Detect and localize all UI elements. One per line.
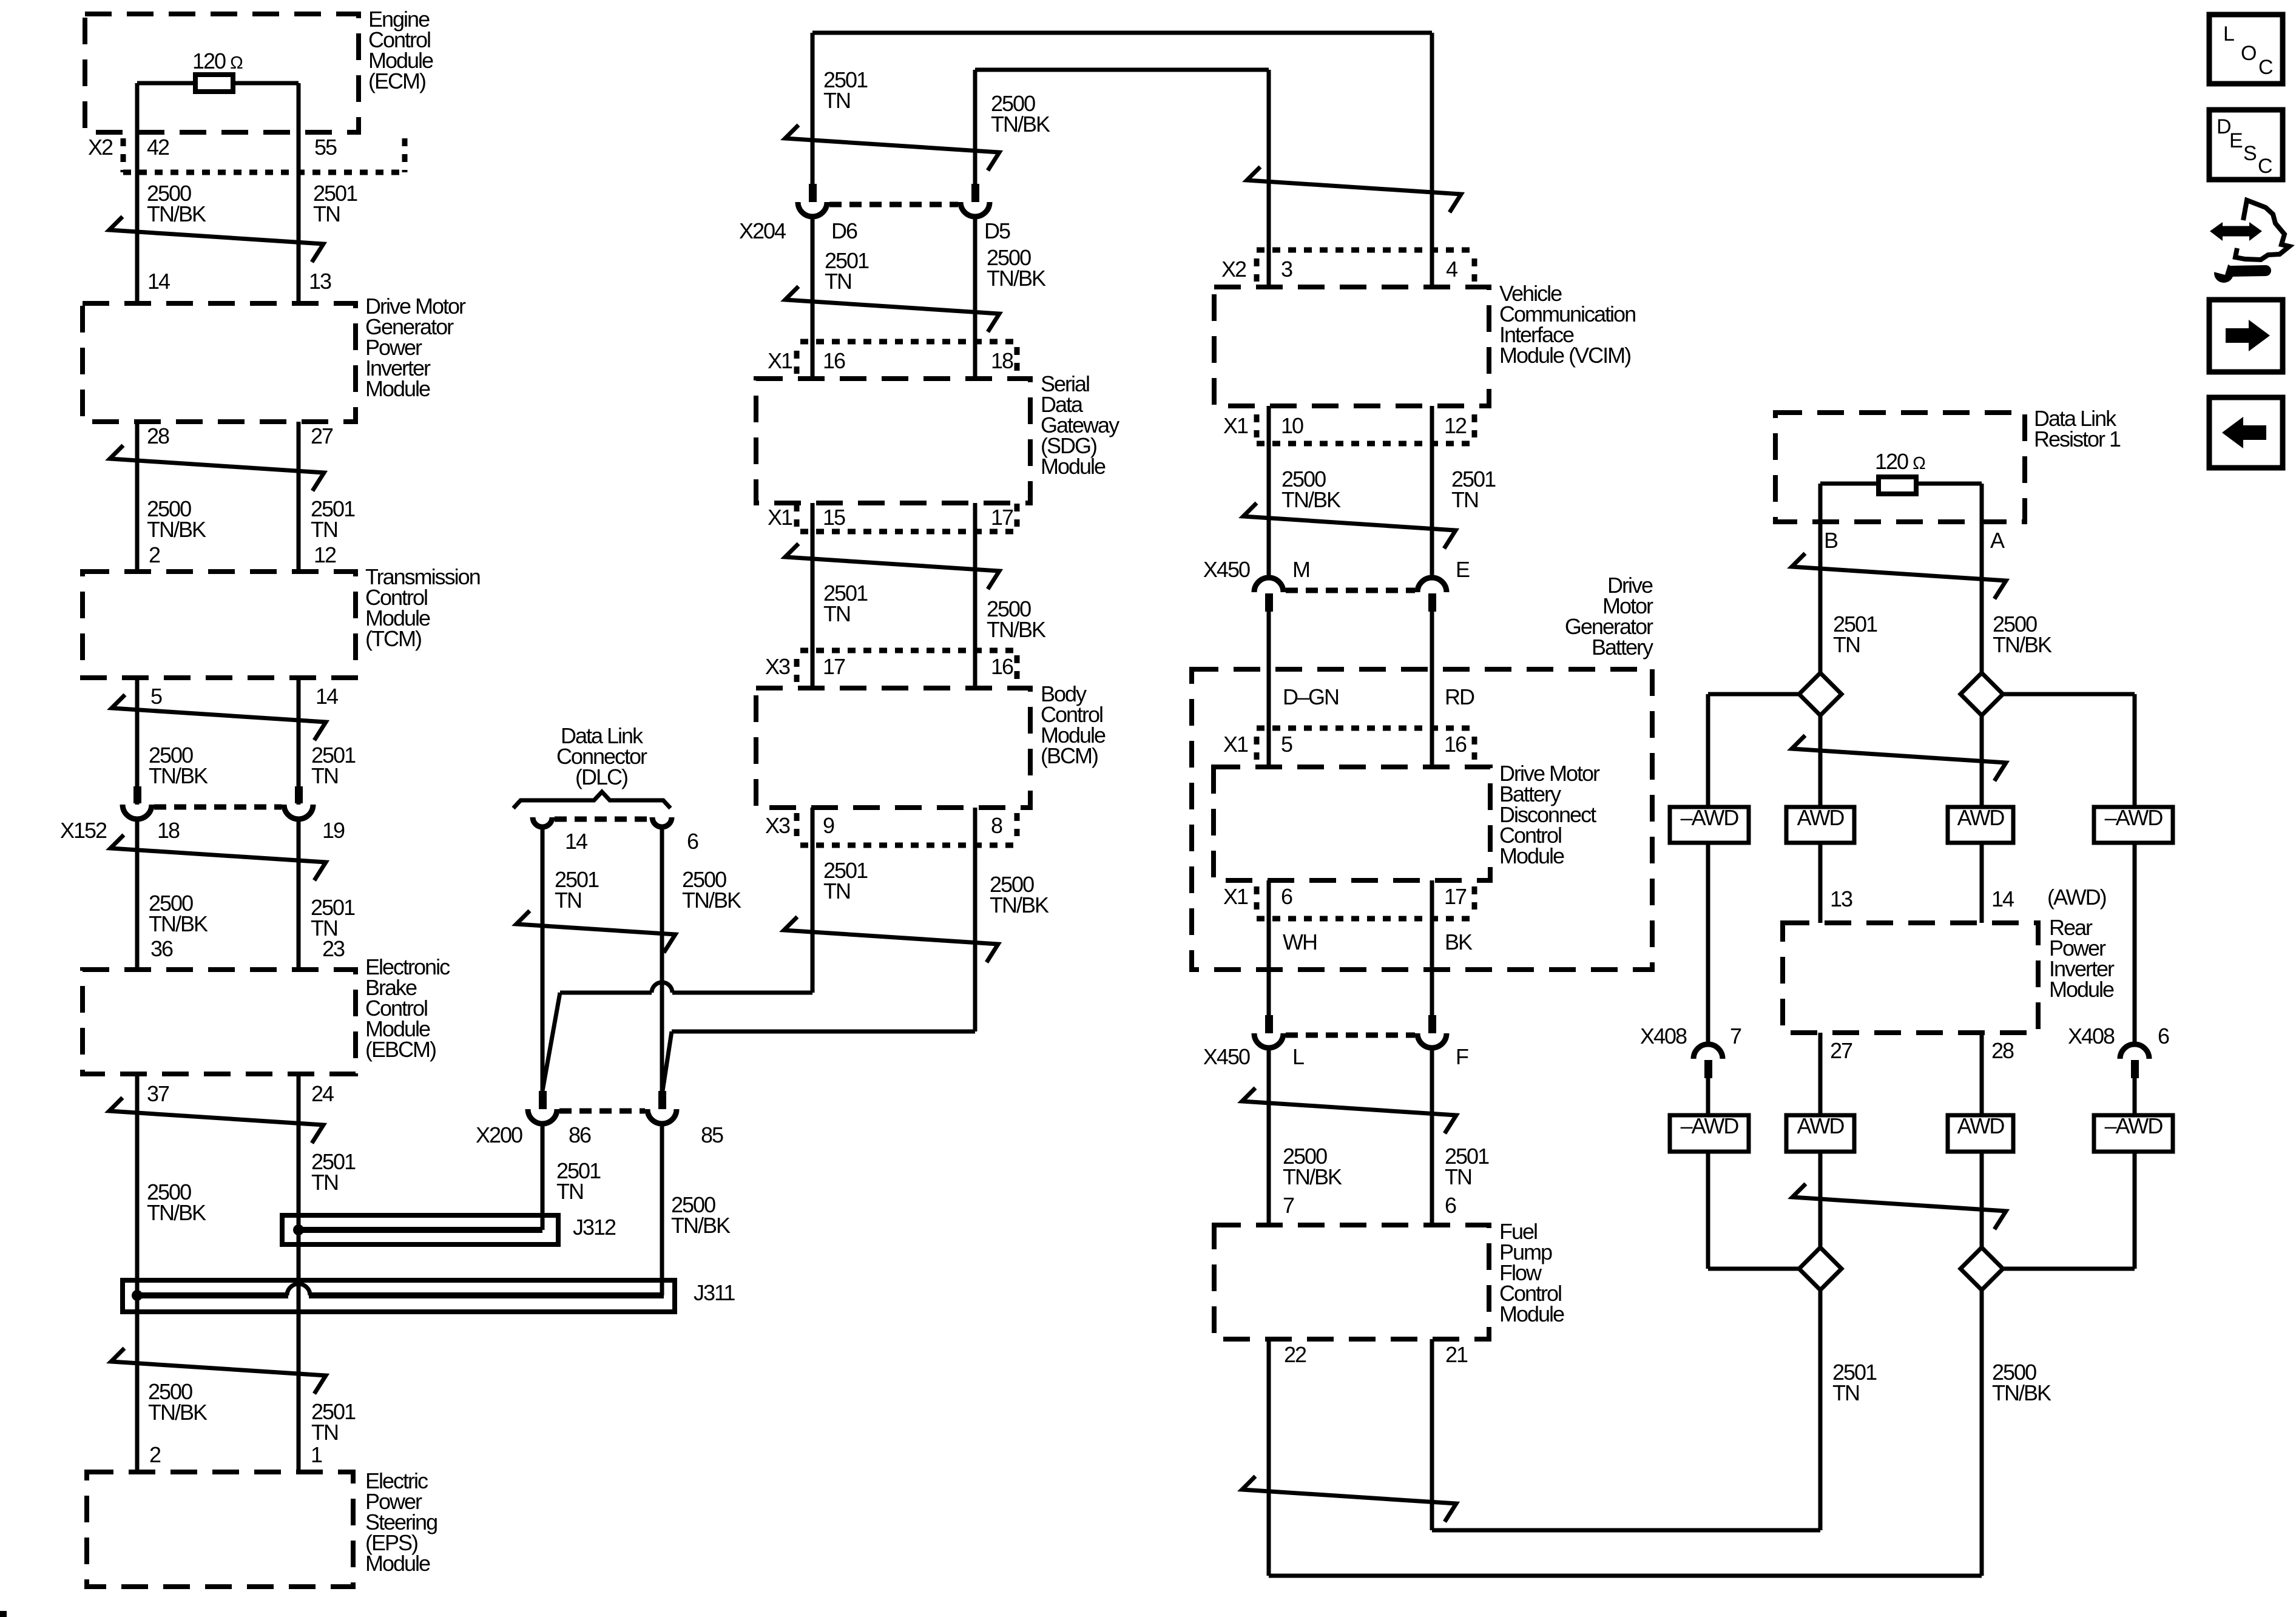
page period mark <box>0 1611 7 1617</box>
wire -AWD right to lower diamond <box>2003 1152 2135 1269</box>
svg-text:X1: X1 <box>1223 732 1248 757</box>
wire 2500 ECM pin 42 to pin 14 <box>135 83 140 302</box>
pin 85 (X200) <box>701 1122 723 1147</box>
svg-text:TN/BK: TN/BK <box>147 201 206 226</box>
option box AWD (row 1 mid-right) <box>1948 805 2013 843</box>
svg-text:TN/BK: TN/BK <box>1283 1164 1342 1189</box>
wire 2500 DLC pin 6 to X200 pin 85 <box>660 827 664 1091</box>
label X450 (M/E) <box>1203 557 1250 582</box>
label 2501 TN (X152-EBCM) <box>311 895 355 940</box>
label 2501 TN (SDG-BCM) <box>823 581 868 626</box>
connector X450 M/E dotted line <box>1286 588 1415 593</box>
pin 14 (TCM) <box>316 684 338 709</box>
svg-text:1: 1 <box>311 1442 322 1467</box>
pin L (X450) <box>1292 1044 1304 1069</box>
connector X152 pin 18 terminal <box>123 786 152 819</box>
label 2500 TN/BK (VCIM-X450) <box>1281 467 1341 512</box>
svg-text:X450: X450 <box>1203 1044 1250 1069</box>
connector X450 pin L terminal <box>1254 1015 1283 1048</box>
label 2501 TN (VCIM-X450) <box>1451 467 1496 512</box>
label 2500 TN/BK (DMGPIM-TCM) <box>147 496 206 542</box>
pin 13 (rear inverter) <box>1830 886 1852 911</box>
pin 86 (X200) <box>569 1122 591 1147</box>
wire X408 7 to -AWD box row 2 <box>1706 1078 1710 1115</box>
module Fuel Pump Flow Control Module <box>1214 1219 1564 1339</box>
crossing slash (rear lower wires) <box>1792 1184 2006 1229</box>
svg-text:6: 6 <box>687 829 698 854</box>
wire 2501 EBCM pin 24 to EPS pin 1 through J312 <box>297 1074 301 1472</box>
label 2500 TN/BK (X152-EBCM) <box>149 891 208 936</box>
connector X408 pin 6 terminal <box>2120 1044 2149 1078</box>
svg-text:18: 18 <box>991 348 1013 373</box>
svg-text:X450: X450 <box>1203 557 1250 582</box>
svg-text:86: 86 <box>569 1122 591 1147</box>
svg-text:(AWD): (AWD) <box>2047 885 2106 910</box>
label 2500 TN/BK (rear bus) <box>1992 1360 2051 1405</box>
wire 2501 DMGPIM pin 27 to TCM pin 12 <box>297 422 301 572</box>
label 2501 TN (J312-EPS) <box>311 1399 356 1445</box>
junction diamond (2501 branch lower) <box>1799 1247 1842 1290</box>
svg-text:–AWD: –AWD <box>1681 805 1739 830</box>
crossing slash (fuel pump lower wires) <box>1242 1476 1456 1522</box>
wire 2501 X450 F to fuel pump pin 6 <box>1430 1048 1434 1225</box>
label 2500 TN/BK (J311-EPS) <box>148 1379 208 1425</box>
svg-text:24: 24 <box>311 1081 334 1106</box>
pin 12 (VCIM X1) <box>1444 413 1467 438</box>
pin 15 (SDG X1) <box>823 505 845 530</box>
wire 2501 lower diamond to bus <box>1818 1290 1823 1530</box>
crossing slash (X204-SDG wires) <box>785 286 999 332</box>
svg-text:(BCM): (BCM) <box>1041 743 1098 768</box>
svg-text:D–GN: D–GN <box>1283 684 1339 709</box>
svg-text:17: 17 <box>823 654 845 679</box>
pin 18 (SDG X1) <box>991 348 1013 373</box>
pin 17 (disconnect X1) <box>1444 884 1467 909</box>
crossing slash (DLC wires) <box>516 911 675 953</box>
label X408 (pin 7) <box>1640 1024 1687 1048</box>
pin 2 (TCM) <box>149 542 160 567</box>
junction diamond (2501 branch upper) <box>1799 673 1842 715</box>
connector X1 row of SDG top <box>768 342 1017 374</box>
svg-text:16: 16 <box>823 348 845 373</box>
crossing slash (DMGPIM wires) <box>110 445 324 491</box>
wire 2500 rear inverter pin 28 down <box>1980 1033 1984 1247</box>
svg-text:X1: X1 <box>1223 413 1248 438</box>
wire 2501 BCM pin 9 to X200 pin 86 <box>542 808 812 1091</box>
svg-text:F: F <box>1456 1044 1468 1069</box>
pin 2 (EPS) <box>149 1442 161 1467</box>
svg-text:TN: TN <box>556 1179 583 1204</box>
crossing slash (BCM lower wires) <box>784 917 998 962</box>
svg-text:X152: X152 <box>60 818 107 843</box>
label X200 <box>476 1122 522 1147</box>
svg-text:B: B <box>1824 528 1838 553</box>
svg-text:36: 36 <box>150 936 173 961</box>
svg-text:18: 18 <box>157 818 180 843</box>
label (AWD) <box>2047 885 2106 910</box>
wire 2501 rear inverter pin 27 down <box>1818 1033 1823 1247</box>
pin 28 (rear inverter) <box>1991 1038 2014 1063</box>
pin 6 (X408) <box>2158 1024 2169 1048</box>
label 2501 TN (ECM-DMGPIM right) <box>313 181 357 226</box>
connector X1 5/16 row (battery disconnect) <box>1223 728 1474 760</box>
svg-text:–AWD: –AWD <box>1681 1113 1739 1138</box>
option box AWD (row 2 mid-right) <box>1948 1113 2013 1152</box>
wire 2500 AWD box to rear inverter pin 14 <box>1980 843 1984 923</box>
pin M (X450) <box>1292 557 1309 582</box>
wire 2500 X152 pin 18 to EBCM pin 36 <box>135 819 140 970</box>
crossing slash (top bus wires) <box>785 125 999 170</box>
wire 2501 VCIM pin 12 to X450 E <box>1430 406 1434 578</box>
svg-text:TN: TN <box>1445 1164 1471 1189</box>
svg-text:X200: X200 <box>476 1122 522 1147</box>
svg-text:D5: D5 <box>984 218 1010 243</box>
label RD <box>1445 684 1474 709</box>
module Electronic Brake Control Module (EBCM) <box>83 954 450 1074</box>
svg-text:TN: TN <box>1451 487 1478 512</box>
connector X204 pin D6 terminal <box>798 184 827 217</box>
svg-text:17: 17 <box>991 505 1013 530</box>
crossing slash (X450-fuel pump wires) <box>1242 1088 1456 1133</box>
crossing slash (VCIM-X450 wires) <box>1243 503 1456 549</box>
module Vehicle Communication Interface Module (VCIM) <box>1214 281 1635 406</box>
junction diamond (2500 branch upper) <box>1960 673 2003 715</box>
svg-text:E: E <box>1456 557 1470 582</box>
option box -AWD (row 1 left) <box>1670 805 1749 843</box>
svg-text:15: 15 <box>823 505 845 530</box>
label BK <box>1445 930 1473 954</box>
label 2500 TN/BK (DLC-X200) <box>682 867 741 913</box>
pin 14 (DMGPIM) <box>147 269 170 294</box>
module Drive Motor Battery Disconnect Control Module <box>1214 761 1600 880</box>
svg-text:7: 7 <box>1730 1024 1741 1048</box>
pin 7 (X408) <box>1730 1024 1741 1048</box>
label 2501 TN (EBCM-J312) <box>311 1149 356 1195</box>
svg-text:14: 14 <box>147 269 170 294</box>
label 2501 TN (X450-fuel pump) <box>1445 1144 1489 1189</box>
crossing slash (J311-EPS wires) <box>111 1348 326 1394</box>
svg-text:2: 2 <box>149 1442 161 1467</box>
connector X3 row of BCM top <box>765 650 1017 682</box>
wire 2500 DMGPIM pin 28 to TCM pin 2 <box>135 422 140 572</box>
label 2501 TN (top bus) <box>823 67 868 113</box>
svg-text:TN: TN <box>825 269 851 294</box>
pin 6 (disconnect X1) <box>1281 884 1292 909</box>
svg-text:6: 6 <box>1445 1193 1456 1218</box>
label 2500 TN/BK (EBCM-J311) <box>147 1180 206 1225</box>
option box -AWD (row 2 right) <box>2094 1113 2173 1152</box>
connector X200 pin 86 terminal <box>528 1091 557 1124</box>
pin 1 (EPS) <box>311 1442 322 1467</box>
svg-text:16: 16 <box>991 654 1013 679</box>
svg-text:9: 9 <box>823 813 834 838</box>
wire 2501 X204 D6 to SDG pin 16 <box>811 217 815 379</box>
crossing slash (ECM wires) <box>109 217 323 262</box>
svg-text:TN: TN <box>311 763 338 788</box>
pin 16 (SDG X1) <box>823 348 845 373</box>
wire 2500 X450 L to fuel pump pin 7 <box>1267 1048 1271 1225</box>
svg-text:5: 5 <box>1281 732 1292 757</box>
label Data Link Connector (DLC) <box>556 723 647 789</box>
wire D-GN X450 M to battery X1 pin 5 <box>1267 612 1271 767</box>
svg-text:L: L <box>1292 1044 1304 1069</box>
connector X204 dotted line <box>829 202 958 208</box>
svg-text:X1: X1 <box>1223 884 1248 909</box>
option box -AWD (row 1 right) <box>2094 805 2173 843</box>
pin 9 (BCM X3) <box>823 813 834 838</box>
pin 23 (EBCM) <box>322 936 345 961</box>
pin B (resistor) <box>1824 528 1838 553</box>
wire 2500 resistor pin A down <box>1980 484 1984 673</box>
connector X200 pin 85 terminal <box>647 1091 677 1124</box>
svg-text:14: 14 <box>316 684 338 709</box>
svg-text:AWD: AWD <box>1957 805 2005 830</box>
svg-text:X3: X3 <box>765 813 790 838</box>
pin F (X450) <box>1456 1044 1468 1069</box>
module Transmission Control Module (TCM) <box>83 564 480 678</box>
svg-text:Module: Module <box>1041 454 1106 479</box>
label 2501 TN (rear bus) <box>1832 1360 1877 1405</box>
connector X200 dotted line <box>559 1109 645 1114</box>
connector X450 L/F dotted line <box>1286 1033 1415 1038</box>
svg-text:TN: TN <box>311 1170 338 1195</box>
pin 27 (DMGPIM) <box>311 424 333 448</box>
svg-text:AWD: AWD <box>1797 805 1845 830</box>
wire -AWD column right upper <box>2133 843 2137 1044</box>
pin 36 (EBCM) <box>150 936 173 961</box>
label 2500 TN/BK (SDG-BCM) <box>987 596 1046 642</box>
wire 2500 VCIM pin 10 to X450 M <box>1267 406 1271 578</box>
wire 2500 TCM pin 5 to X152 pin 18 <box>135 678 140 805</box>
wire -AWD left to lower diamond <box>1708 1152 1799 1269</box>
pin 6 (DLC) <box>687 829 698 854</box>
svg-text:TN/BK: TN/BK <box>987 266 1046 291</box>
connector DLC pin 6 cavity <box>652 817 672 827</box>
svg-text:X3: X3 <box>765 654 790 679</box>
crossing slash (X152-EBCM wires) <box>110 835 326 880</box>
pin 6 (fuel pump) <box>1445 1193 1456 1218</box>
svg-text:TN/BK: TN/BK <box>991 112 1050 137</box>
pin 18 (X152) <box>157 818 180 843</box>
svg-text:Module (VCIM): Module (VCIM) <box>1499 343 1630 368</box>
svg-text:TN/BK: TN/BK <box>149 763 208 788</box>
wire 2500 lower diamond to bus <box>1980 1290 1984 1576</box>
svg-text:TN/BK: TN/BK <box>682 888 741 913</box>
pin 10 (VCIM X1) <box>1281 413 1303 438</box>
wire 2501 ECM pin 55 to pin 13 <box>297 83 301 302</box>
label 2500 TN/BK (upper bus) <box>991 91 1050 137</box>
label D-GN <box>1283 684 1339 709</box>
pin 3 (VCIM X2) <box>1281 257 1292 282</box>
label 2500 TN/BK (ECM-DMGPIM left) <box>147 181 206 226</box>
svg-text:TN: TN <box>311 1420 338 1445</box>
connector X1 6/17 row (battery disconnect) <box>1223 884 1474 919</box>
connector X450 pin M terminal <box>1254 578 1283 612</box>
label 2500 TN/BK (X200-J311) <box>671 1192 731 1238</box>
svg-text:13: 13 <box>309 269 331 294</box>
svg-text:Module: Module <box>1499 1301 1564 1326</box>
wire 2501 X200 pin 86 to J312 <box>541 1124 545 1230</box>
icon arrow left box <box>2209 397 2283 468</box>
brace over DLC <box>513 792 670 808</box>
crossing slash (TCM wires) <box>112 695 326 740</box>
option box AWD (row 2 mid-left) <box>1786 1113 1854 1152</box>
label 2501 TN (TCM-X152) <box>311 743 356 788</box>
connector X1 row of SDG bottom <box>768 504 1017 532</box>
pin 28 (DMGPIM) <box>147 424 169 448</box>
svg-text:14: 14 <box>565 829 587 854</box>
svg-text:Module: Module <box>1499 843 1564 868</box>
icon DESC box <box>2209 110 2283 180</box>
svg-text:(ECM): (ECM) <box>368 69 425 93</box>
pin 22 (fuel pump) <box>1284 1342 1306 1367</box>
wire 2500 X204 D5 to SDG pin 18 <box>973 217 977 379</box>
pin 14 (DLC) <box>565 829 587 854</box>
svg-text:TN: TN <box>823 879 850 903</box>
wire X408 6 to -AWD box row 2 <box>2133 1078 2137 1115</box>
wire 2501 diamond to AWD box <box>1818 715 1823 807</box>
svg-text:16: 16 <box>1444 732 1467 757</box>
svg-text:12: 12 <box>314 542 336 567</box>
svg-text:TN/BK: TN/BK <box>987 617 1046 642</box>
module Drive Motor Generator Power Inverter Module <box>83 294 466 422</box>
svg-text:4: 4 <box>1446 257 1457 282</box>
svg-text:28: 28 <box>1991 1038 2014 1063</box>
svg-text:21: 21 <box>1445 1342 1468 1367</box>
label 2500 TN/BK (X450-fuel pump) <box>1283 1144 1342 1189</box>
wire 2501 X152 pin 19 to EBCM pin 23 <box>297 819 301 970</box>
wire 2501 TCM pin 14 to X152 pin 19 <box>297 678 301 805</box>
resistor 120 ohm (Data Link Resistor 1) <box>1820 449 1982 494</box>
svg-text:6: 6 <box>1281 884 1292 909</box>
wire VCIM pin 4 internal <box>1430 250 1434 287</box>
pin 17 (SDG X1) <box>991 505 1013 530</box>
svg-text:(EBCM): (EBCM) <box>365 1037 436 1062</box>
svg-text:D: D <box>2217 115 2230 138</box>
svg-text:Module: Module <box>2049 977 2114 1002</box>
label WH <box>1283 930 1317 954</box>
svg-text:TN/BK: TN/BK <box>147 1200 206 1225</box>
wire branch to left -AWD column <box>1708 694 1799 807</box>
wire 2501 SDG pin 15 to BCM pin 17 <box>811 503 815 688</box>
svg-text:J312: J312 <box>573 1215 616 1240</box>
svg-text:TN/BK: TN/BK <box>147 517 206 542</box>
pin 8 (BCM X3) <box>991 813 1002 838</box>
option box -AWD (row 2 left) <box>1670 1113 1749 1152</box>
label 2501 TN (BCM-X200) <box>823 858 868 903</box>
svg-text:TN: TN <box>823 601 850 626</box>
svg-text:X2: X2 <box>88 135 113 160</box>
wire 2500 fuel pump pin 22 to rear bus <box>1269 1339 1982 1576</box>
label 2500 TN/BK (TCM-X152) <box>149 743 208 788</box>
svg-text:27: 27 <box>1830 1038 1852 1063</box>
svg-text:J311: J311 <box>694 1280 735 1305</box>
pin 4 (VCIM X2) <box>1446 257 1457 282</box>
svg-text:Battery: Battery <box>1592 635 1653 660</box>
svg-text:3: 3 <box>1281 257 1292 282</box>
crossing slash (SDG-BCM wires) <box>785 544 999 589</box>
svg-text:Resistor 1: Resistor 1 <box>2034 427 2121 451</box>
svg-text:120 Ω: 120 Ω <box>192 49 243 73</box>
splice J311 <box>123 1280 675 1312</box>
svg-text:D6: D6 <box>831 218 857 243</box>
wire 2501 resistor pin B down <box>1818 484 1823 673</box>
svg-text:AWD: AWD <box>1797 1113 1845 1138</box>
svg-text:TN/BK: TN/BK <box>671 1213 731 1238</box>
svg-text:–AWD: –AWD <box>2105 805 2163 830</box>
svg-text:(DLC): (DLC) <box>575 765 627 789</box>
svg-text:TN: TN <box>555 888 581 913</box>
svg-text:X1: X1 <box>768 348 792 373</box>
svg-text:8: 8 <box>991 813 1002 838</box>
wire 2501 fuel pump pin 21 to rear bus <box>1432 1339 1820 1530</box>
svg-text:O: O <box>2241 42 2256 65</box>
svg-text:5: 5 <box>150 684 162 709</box>
svg-text:55: 55 <box>314 135 337 160</box>
svg-text:6: 6 <box>2158 1024 2169 1048</box>
crossing slash (EBCM wires) <box>109 1098 323 1143</box>
wire 2500 X200 pin 85 to J311 <box>660 1124 664 1295</box>
svg-text:AWD: AWD <box>1957 1113 2005 1138</box>
splice J312 <box>282 1215 558 1244</box>
pin 12 (TCM) <box>314 542 336 567</box>
pin D5 (X204) <box>984 218 1010 243</box>
svg-text:M: M <box>1292 557 1309 582</box>
svg-text:Module: Module <box>365 376 430 401</box>
pin 42 (ECM X2) <box>147 135 169 160</box>
pin 7 (fuel pump) <box>1283 1193 1294 1218</box>
wire branch to right -AWD column <box>2003 694 2135 807</box>
svg-text:TN/BK: TN/BK <box>149 911 208 936</box>
svg-text:42: 42 <box>147 135 169 160</box>
junction diamond (2500 branch lower) <box>1960 1247 2003 1290</box>
wire 2500 SDG pin 17 to BCM pin 16 <box>973 503 977 688</box>
svg-text:23: 23 <box>322 936 345 961</box>
label X204 <box>739 218 786 243</box>
svg-text:TN: TN <box>823 88 850 113</box>
option box AWD (row 1 mid-left) <box>1786 805 1854 843</box>
svg-text:7: 7 <box>1283 1193 1294 1218</box>
pin 13 (DMGPIM) <box>309 269 331 294</box>
connector X152 pin 19 terminal <box>284 786 313 819</box>
crossing slash (resistor wires) <box>1792 553 2006 599</box>
svg-text:(TCM): (TCM) <box>365 626 421 651</box>
resistor 120 ohm (ECM internal) <box>137 49 299 92</box>
svg-text:TN/BK: TN/BK <box>990 893 1049 917</box>
svg-text:85: 85 <box>701 1122 723 1147</box>
svg-text:C: C <box>2258 155 2272 178</box>
wire 2500 upper bus to VCIM pin 3 <box>975 70 1269 250</box>
pin 16 (disconnect X1) <box>1444 732 1467 757</box>
svg-text:TN: TN <box>311 517 337 542</box>
svg-text:TN: TN <box>1833 632 1860 657</box>
wire 2501 DLC pin 14 to X200 pin 86 <box>541 827 545 1091</box>
module Drive Motor Generator Battery box <box>1192 669 1652 970</box>
pin 24 (EBCM) <box>311 1081 334 1106</box>
module Body Control Module (BCM) <box>756 681 1106 808</box>
svg-text:10: 10 <box>1281 413 1303 438</box>
svg-text:WH: WH <box>1283 930 1317 954</box>
pin 17 (BCM X3) <box>823 654 845 679</box>
svg-text:2: 2 <box>149 542 160 567</box>
pin 37 (EBCM) <box>147 1081 169 1106</box>
svg-text:TN: TN <box>1832 1380 1859 1405</box>
module Data Link Resistor 1 box <box>1775 406 2121 522</box>
svg-text:–AWD: –AWD <box>2105 1113 2163 1138</box>
svg-text:X204: X204 <box>739 218 786 243</box>
svg-text:C: C <box>2258 56 2273 79</box>
label X408 (pin 6) <box>2068 1024 2115 1048</box>
